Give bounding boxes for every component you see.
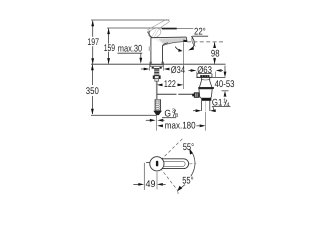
dimension Ø34 extension lines	[149, 64, 151, 70]
dashed swivel line lower	[157, 164, 178, 191]
dimension 49	[133, 183, 139, 185]
lever rotation arrow large	[191, 36, 194, 47]
extension line circle axis	[156, 172, 158, 190]
dimension 197 line	[92, 21, 94, 37]
threaded shank	[154, 68, 159, 75]
lever bar plan	[160, 159, 188, 169]
extension line 159 level	[107, 27, 162, 29]
tailpipe	[201, 101, 203, 111]
dimension Ø34 arrows	[141, 68, 146, 70]
Ø63 extension lines	[196, 72, 198, 78]
svg-text:max.180: max.180	[165, 121, 196, 132]
dimension 40-53	[224, 66, 226, 74]
lever bar inner line	[161, 161, 186, 166]
raised lever (thin alternate position)	[147, 19, 166, 30]
svg-text:55°: 55°	[182, 176, 194, 187]
pop-up rod	[157, 93, 177, 95]
svg-text:22°: 22°	[194, 26, 206, 37]
extension line top (197 level)	[91, 19, 169, 21]
extension line to 22 deg	[177, 28, 193, 30]
waste seal band	[198, 87, 214, 89]
pivot mark	[156, 161, 158, 167]
extension line drain axis	[205, 112, 207, 131]
tick left of knob	[147, 32, 149, 35]
deck line	[91, 63, 226, 65]
pop-up waste: Ø63 dimension	[188, 70, 192, 72]
waste deck line	[196, 77, 225, 79]
extension line hose axis	[156, 115, 158, 131]
svg-text:40-53: 40-53	[215, 79, 235, 90]
body left edge	[150, 38, 152, 64]
swivel arc	[190, 150, 195, 177]
svg-text:49: 49	[146, 179, 156, 190]
waste nut	[199, 89, 212, 98]
stub leader left	[146, 162, 150, 164]
notch on left edge	[149, 46, 151, 51]
centerline dash right	[189, 163, 196, 165]
body right edge	[162, 46, 164, 64]
svg-text:55°: 55°	[183, 142, 195, 153]
waste flange	[197, 74, 212, 78]
base feet	[150, 62, 152, 64]
waste body	[200, 78, 202, 88]
extension line bottom (hose end level)	[91, 114, 157, 116]
dimension 350 line	[91, 65, 93, 85]
dimension 122	[157, 84, 163, 87]
dimension 98	[214, 42, 216, 47]
leader vertical	[143, 163, 145, 190]
dimension 159 line	[108, 28, 110, 43]
mounting nut	[153, 76, 160, 79]
dimension max.180	[157, 124, 163, 127]
spout height dash line	[187, 41, 224, 43]
svg-text:Ø34: Ø34	[171, 65, 186, 76]
angle arc 22deg	[192, 37, 195, 47]
svg-text:197: 197	[87, 37, 99, 48]
washer plates under deck	[150, 65, 163, 67]
pivot port	[194, 93, 199, 98]
closed lever top bar	[162, 28, 177, 30]
svg-text:159: 159	[104, 43, 115, 54]
dashed swivel line upper	[157, 138, 183, 164]
supply pipe	[155, 81, 157, 99]
lever rotation arrow small	[175, 47, 181, 51]
funnel curve body top	[163, 43, 169, 46]
raised lever knob	[147, 26, 162, 40]
flexible hose braided	[155, 100, 161, 111]
dimension max.30 arrow	[140, 53, 142, 58]
spout blade	[151, 37, 187, 44]
spout tip dark	[183, 40, 187, 42]
svg-text:122: 122	[164, 79, 176, 90]
hose end cone	[153, 111, 162, 115]
waste nut bottom band	[201, 98, 211, 101]
body circle plan	[150, 157, 164, 171]
svg-text:350: 350	[86, 86, 99, 97]
G1 1/4 leader arrows	[193, 110, 197, 112]
small arrows at hose axis	[146, 119, 152, 121]
svg-text:98: 98	[211, 48, 220, 59]
water stream line	[183, 42, 185, 89]
